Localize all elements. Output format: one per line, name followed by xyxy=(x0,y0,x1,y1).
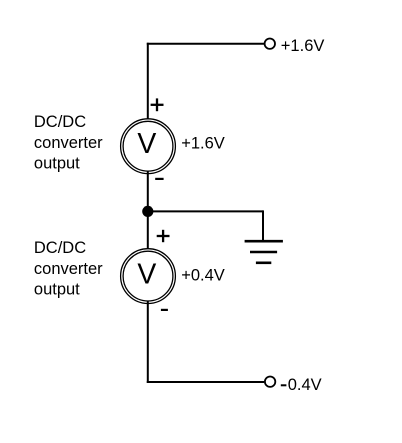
wire vertical drop to ground symbol xyxy=(262,210,264,240)
svg-text:V: V xyxy=(137,259,156,291)
svg-text:+1.6V: +1.6V xyxy=(281,37,325,55)
wire bottom rail to -0.4V terminal (horizontal) xyxy=(147,381,264,383)
wire from - of source V1 to + of source V2 through center node xyxy=(147,172,149,252)
terminal +1.6V (open circle) xyxy=(265,39,275,49)
svg-text:converter: converter xyxy=(34,260,103,278)
minus polarity mark of source V1 xyxy=(155,178,163,180)
svg-text:V: V xyxy=(137,128,156,160)
svg-text:output: output xyxy=(34,155,80,173)
wire vertical from top rail into + terminal of source V1 xyxy=(147,43,149,121)
svg-text:DC/DC: DC/DC xyxy=(34,113,86,131)
plus polarity mark of source V1 xyxy=(151,98,164,111)
minus polarity mark of source V2 xyxy=(161,309,168,311)
ground xyxy=(245,241,283,263)
wire from +1.6V terminal to top of source V1 (horizontal) xyxy=(147,43,264,45)
voltage source V1 (double circle) xyxy=(121,119,176,174)
voltage source V2 (double circle) xyxy=(121,249,176,304)
svg-text:+0.4V: +0.4V xyxy=(181,267,225,285)
svg-text:0.4V: 0.4V xyxy=(288,376,322,394)
wire from - of source V2 down to bottom rail xyxy=(147,302,149,384)
svg-text:+1.6V: +1.6V xyxy=(181,135,225,153)
label -0.4V at bottom terminal xyxy=(281,376,322,394)
terminal -0.4V (open circle) xyxy=(265,377,275,387)
junction node (center tap) xyxy=(142,206,153,217)
svg-text:output: output xyxy=(34,281,80,299)
wire from center node to ground (horizontal) xyxy=(148,210,263,212)
svg-text:converter: converter xyxy=(34,134,103,152)
svg-text:DC/DC: DC/DC xyxy=(34,239,86,257)
plus polarity mark of source V2 xyxy=(157,230,170,242)
